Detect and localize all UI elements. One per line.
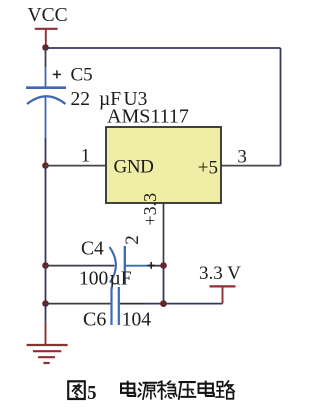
label C5 xyxy=(71,64,93,85)
wire pin 3 stub xyxy=(221,165,281,167)
svg-text:3.3 V: 3.3 V xyxy=(199,263,241,284)
svg-text:3: 3 xyxy=(237,146,247,167)
svg-text:AMS1117: AMS1117 xyxy=(107,106,189,128)
wire VCC junction down to C5 xyxy=(45,48,47,88)
svg-text:C4: C4 xyxy=(81,239,104,260)
caption char 压 xyxy=(179,382,196,399)
svg-text:2: 2 xyxy=(122,235,143,245)
caption char 源 xyxy=(138,383,156,399)
capacitor C5 plus mark xyxy=(53,70,61,78)
value 104 xyxy=(122,309,152,330)
pin name +5 xyxy=(198,157,218,178)
caption char 5 xyxy=(87,382,96,404)
label C4 xyxy=(81,239,104,260)
svg-text:µF: µF xyxy=(110,268,132,289)
svg-text:104: 104 xyxy=(122,309,152,330)
net label 3.3 V xyxy=(199,263,241,284)
svg-text:5: 5 xyxy=(87,382,96,404)
power symbol VCC bar xyxy=(35,29,58,48)
capacitor C4 plus mark xyxy=(148,262,155,269)
wire pin 1 stub xyxy=(46,165,107,167)
svg-text:GND: GND xyxy=(114,156,154,177)
wire C6 junction to 3.3V stem xyxy=(164,303,223,305)
caption char 图 xyxy=(68,381,85,399)
designator U3 xyxy=(124,89,148,110)
junction pin 2 node xyxy=(160,262,167,269)
power symbol 3.3V bar xyxy=(210,286,236,303)
wire left rail pin1 to C4 row xyxy=(45,166,47,266)
value 100 uF xyxy=(79,268,132,289)
label C6 xyxy=(83,308,106,330)
svg-text:+5: +5 xyxy=(198,157,218,178)
svg-text:22: 22 xyxy=(71,89,91,110)
wire top VCC to right rail xyxy=(46,47,281,49)
ground xyxy=(27,345,68,363)
pin number 2 (rotated) xyxy=(122,235,143,245)
pin number 1 xyxy=(81,145,91,166)
wire C6 right to junction xyxy=(120,303,164,305)
pin name +3.3 (rotated) xyxy=(140,193,160,226)
caption char 电 (2nd) xyxy=(199,381,214,396)
wire left rail C4 row to C6 row xyxy=(45,266,47,304)
wire right rail down to pin 3 row xyxy=(280,48,282,166)
capacitor C6 xyxy=(112,287,119,325)
capacitor C5 xyxy=(26,88,66,104)
value 22 uF xyxy=(71,89,122,110)
pin number 3 xyxy=(237,146,247,167)
pin name GND xyxy=(114,156,154,177)
regulator U3 body xyxy=(106,127,221,203)
svg-text:VCC: VCC xyxy=(28,5,68,26)
svg-text:100: 100 xyxy=(79,268,108,289)
wire C4 left xyxy=(46,265,115,267)
svg-text:+3.3: +3.3 xyxy=(140,193,160,226)
label AMS1117 xyxy=(107,106,189,128)
junction C4 left node xyxy=(42,262,49,269)
wire C6 left xyxy=(46,303,111,305)
svg-text:C5: C5 xyxy=(71,64,93,85)
wire pin2 junction down to C6 row xyxy=(163,266,165,304)
caption char 路 xyxy=(216,381,234,399)
wire C4 right to pin2 junction xyxy=(125,265,164,267)
wire down to ground xyxy=(45,304,47,344)
net label VCC xyxy=(28,5,68,26)
junction C6 left node xyxy=(42,300,49,307)
junction pin 1 node xyxy=(42,162,49,169)
wire pin 2 down xyxy=(163,203,165,266)
svg-text:1: 1 xyxy=(81,145,91,166)
svg-text:C6: C6 xyxy=(83,308,106,330)
wire C5 down to pin1 junction xyxy=(45,96,47,166)
capacitor C4 xyxy=(110,246,125,284)
caption char 电 (1st) xyxy=(121,381,135,396)
junction VCC node xyxy=(42,44,49,51)
junction C6 right node xyxy=(160,300,167,307)
caption char 稳 xyxy=(158,381,177,399)
